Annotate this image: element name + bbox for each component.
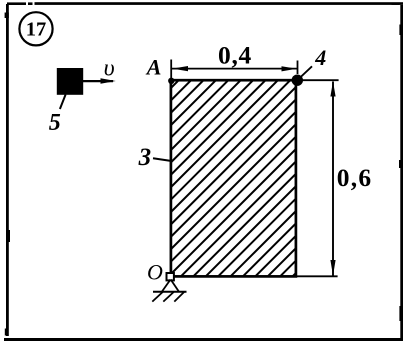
svg-text:0,6: 0,6 [337,163,372,192]
plate outline (rectangle) [171,80,296,276]
dimension 0,6 up arrowhead [330,81,335,96]
pin joint square at O [167,273,174,280]
dimension 0,4 extension line at A [170,60,172,80]
dimension 0,6 down arrowhead [330,260,335,276]
hatching of plate [0,76,403,280]
svg-text:4: 4 [314,45,326,70]
ground hatch strokes [152,292,184,302]
corner dot 4 [292,75,303,86]
dimension 0,4 right arrowhead [282,66,297,71]
svg-text:0,4: 0,4 [218,40,252,69]
svg-text:3: 3 [138,144,152,171]
leader line to label 4 [297,66,312,80]
dimension 0,4 left arrowhead [172,66,188,71]
dimension 0,4 line [172,68,297,70]
dimension 0,6 top extension line [299,79,339,81]
dimension 0,4 extension line at 4 [297,61,299,75]
svg-text:υ: υ [104,56,115,82]
body 5 (black square) [57,68,83,95]
velocity arrow [83,78,116,83]
dimension 0,6 bottom extension line [296,275,338,277]
frame right border [392,3,403,341]
frame top border [7,2,403,5]
circled figure number 17 [19,12,52,45]
dimension 0,6 line [332,82,334,276]
ground line [153,291,187,293]
pin support triangle [162,280,179,292]
corner dot A [168,78,174,84]
leader line to label 3 [153,158,172,161]
frame left border [5,4,10,336]
svg-text:A: A [145,54,162,79]
svg-text:5: 5 [49,110,61,136]
svg-text:O: O [147,260,163,285]
svg-text:17: 17 [26,19,47,41]
leader line to label 5 [60,95,66,110]
frame bottom border [4,338,403,341]
